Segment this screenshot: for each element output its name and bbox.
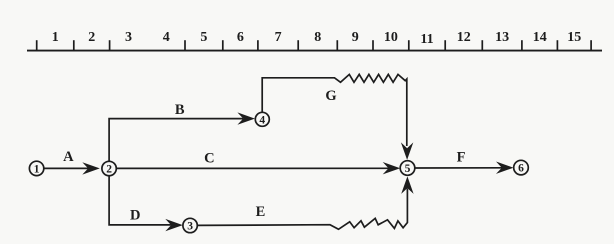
svg-text:3: 3 (187, 221, 193, 233)
ruler tick 1 (73, 40, 75, 50)
node 4 (255, 112, 269, 126)
svg-text:4: 4 (259, 114, 265, 126)
ruler tick 2 (109, 40, 111, 50)
svg-text:F: F (457, 150, 466, 166)
svg-text:1: 1 (34, 163, 40, 175)
ruler tick 13 (521, 40, 523, 50)
svg-text:11: 11 (420, 32, 433, 47)
ruler tick 5 (222, 40, 224, 50)
ruler tick 12 (481, 40, 483, 50)
ruler tick 4 (184, 40, 186, 50)
node 1 (29, 161, 43, 175)
svg-text:15: 15 (567, 30, 581, 45)
svg-text:8: 8 (314, 30, 321, 45)
node 2 (102, 161, 116, 175)
svg-text:12: 12 (457, 30, 471, 45)
svg-text:5: 5 (405, 163, 411, 175)
node 6 (514, 160, 529, 175)
ruler tick 14 (556, 40, 558, 50)
svg-text:6: 6 (518, 163, 524, 175)
svg-text:10: 10 (384, 30, 398, 45)
ruler tick 0 (36, 40, 38, 50)
svg-text:1: 1 (52, 30, 59, 45)
svg-text:D: D (130, 207, 140, 223)
svg-text:A: A (63, 149, 74, 165)
svg-text:B: B (175, 102, 185, 118)
activity E arrow with free-float zigzag (197, 176, 413, 229)
svg-text:6: 6 (237, 30, 244, 45)
svg-text:9: 9 (352, 30, 359, 45)
svg-text:G: G (325, 88, 336, 104)
ruler tick 11 (444, 40, 446, 50)
ruler tick 15 (590, 40, 592, 50)
svg-text:14: 14 (533, 30, 547, 45)
ruler tick 8 (336, 40, 338, 50)
svg-text:2: 2 (106, 164, 112, 176)
svg-text:E: E (256, 204, 266, 220)
svg-text:C: C (204, 151, 214, 167)
ruler tick 9 (372, 40, 374, 50)
node 3 (183, 218, 197, 232)
activity C arrow (116, 162, 400, 174)
svg-text:3: 3 (125, 30, 132, 45)
svg-text:5: 5 (200, 30, 207, 45)
activity B arrow (109, 112, 255, 161)
node 5 (400, 161, 415, 176)
ruler tick 7 (297, 40, 299, 50)
activity F arrow (415, 162, 514, 174)
ruler baseline (27, 50, 602, 52)
svg-text:13: 13 (495, 30, 509, 45)
svg-text:2: 2 (88, 30, 95, 45)
ruler tick 6 (257, 40, 259, 50)
ruler tick 10 (408, 40, 410, 50)
activity G arrow with free-float zigzag (262, 74, 413, 159)
activity D arrow (109, 176, 183, 232)
svg-text:4: 4 (163, 30, 170, 45)
activity A arrow (44, 162, 100, 174)
svg-text:7: 7 (275, 30, 282, 45)
